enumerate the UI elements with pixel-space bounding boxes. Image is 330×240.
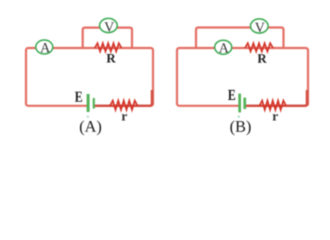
resistor R (circuit A) zigzag [95, 43, 122, 51]
label r (circuit B) [273, 114, 278, 120]
battery E (circuit B): short plate [243, 98, 246, 109]
label E (circuit B) [228, 90, 235, 100]
resistor r (circuit A) zigzag [110, 101, 138, 110]
wire: outer loop of circuit B [177, 28, 308, 106]
battery E (circuit A): short plate [93, 98, 95, 109]
wire bottom-right segment B (battery to right corner, deeper red) [246, 90, 307, 106]
wire outer loop B (rounded corners) [177, 48, 308, 106]
resistor r (circuit B) zigzag [260, 101, 287, 110]
artifact tick below battery B [238, 116, 240, 118]
ammeter A1 (circuit A) [36, 40, 53, 54]
wire voltmeter branch B: left riser, top, right riser [196, 28, 284, 49]
resistor R (circuit B) zigzag [245, 43, 273, 51]
ammeter A2 (circuit B) [215, 40, 232, 54]
label R (circuit B) [258, 54, 267, 63]
battery gap white-out A [87, 103, 94, 108]
wire: outer loop left/top/right/bottom of circuit A [26, 28, 153, 106]
voltmeter V1 (circuit A) [100, 18, 118, 32]
wire outer loop A (rounded corners) [26, 48, 153, 106]
label r (circuit A) [122, 114, 127, 120]
label R (circuit A) [107, 54, 116, 63]
voltmeter V2 (circuit B) [250, 19, 268, 33]
wire bottom-right segment A (battery to right corner, deeper red) [95, 90, 152, 106]
battery gap white-out B [239, 103, 246, 108]
label E (circuit A) [75, 92, 82, 102]
label (B) caption [230, 120, 250, 135]
label (A) caption [80, 120, 101, 135]
battery E (circuit B): long plate [238, 94, 241, 113]
battery E (circuit A): long plate [87, 94, 90, 112]
artifact tick below battery A [87, 116, 89, 118]
wire voltmeter branch A: left riser, top, right riser [83, 28, 132, 48]
